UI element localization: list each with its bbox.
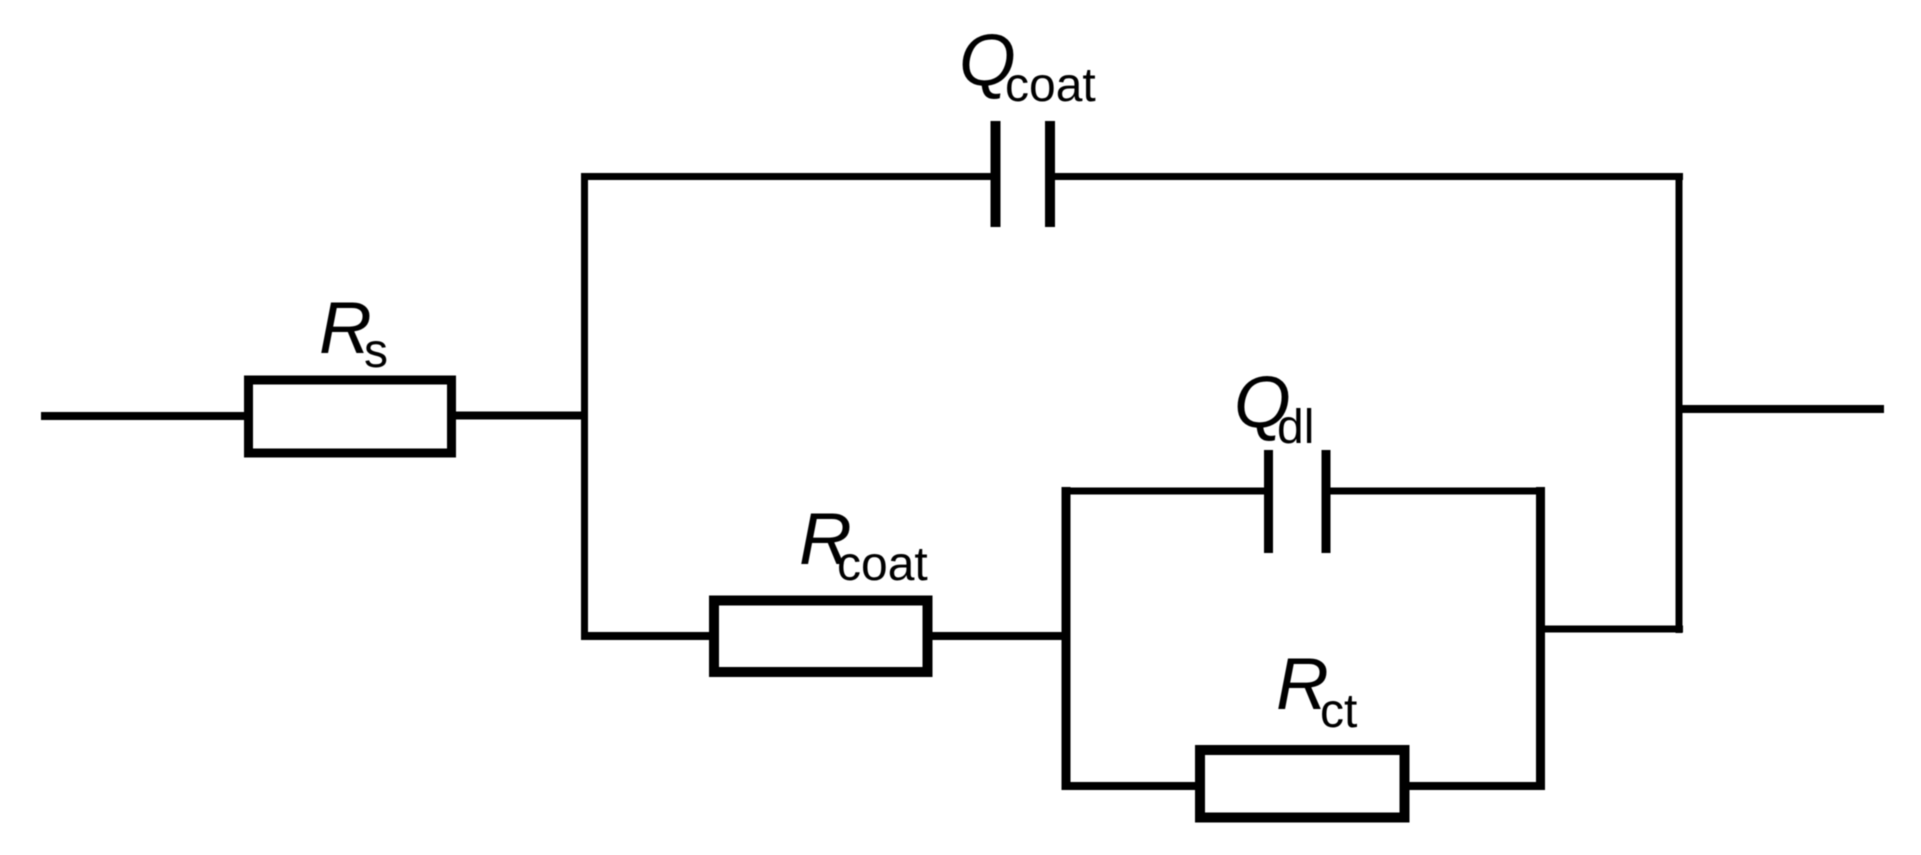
wire bottom branch left	[581, 632, 714, 640]
label Rcoat	[799, 499, 928, 591]
wire inner left vertical	[1062, 487, 1071, 790]
capacitor Qcoat	[996, 121, 1051, 227]
wire connector inner to outer right	[1536, 626, 1683, 633]
wire inner right vertical	[1536, 487, 1545, 790]
svg-text:ct: ct	[1320, 685, 1357, 738]
wire inner bottom branch left	[1062, 782, 1200, 790]
label Rct	[1276, 644, 1357, 738]
label Qdl	[1234, 362, 1314, 454]
wire outer right vertical	[1676, 173, 1683, 633]
label Qcoat	[959, 20, 1096, 112]
svg-text:s: s	[364, 325, 388, 378]
resistor Rct	[1200, 750, 1405, 818]
wire top branch right	[1055, 173, 1683, 180]
wire Rcoat to inner block	[928, 632, 1070, 640]
svg-text:coat: coat	[837, 538, 928, 591]
wire input left	[41, 412, 250, 420]
resistor Rs	[249, 380, 452, 453]
wire inner top branch left	[1062, 488, 1269, 495]
wire output right	[1676, 405, 1884, 413]
svg-text:dl: dl	[1277, 401, 1314, 454]
wire left vertical branch	[581, 173, 588, 640]
wire inner top branch right	[1330, 488, 1544, 495]
wire top branch left	[581, 173, 991, 180]
capacitor Qdl	[1269, 450, 1327, 553]
label Rs	[319, 288, 388, 378]
resistor Rcoat	[714, 601, 928, 673]
svg-text:coat: coat	[1005, 59, 1096, 112]
wire Rs to node A	[452, 412, 588, 420]
wire inner bottom branch right	[1405, 782, 1545, 790]
